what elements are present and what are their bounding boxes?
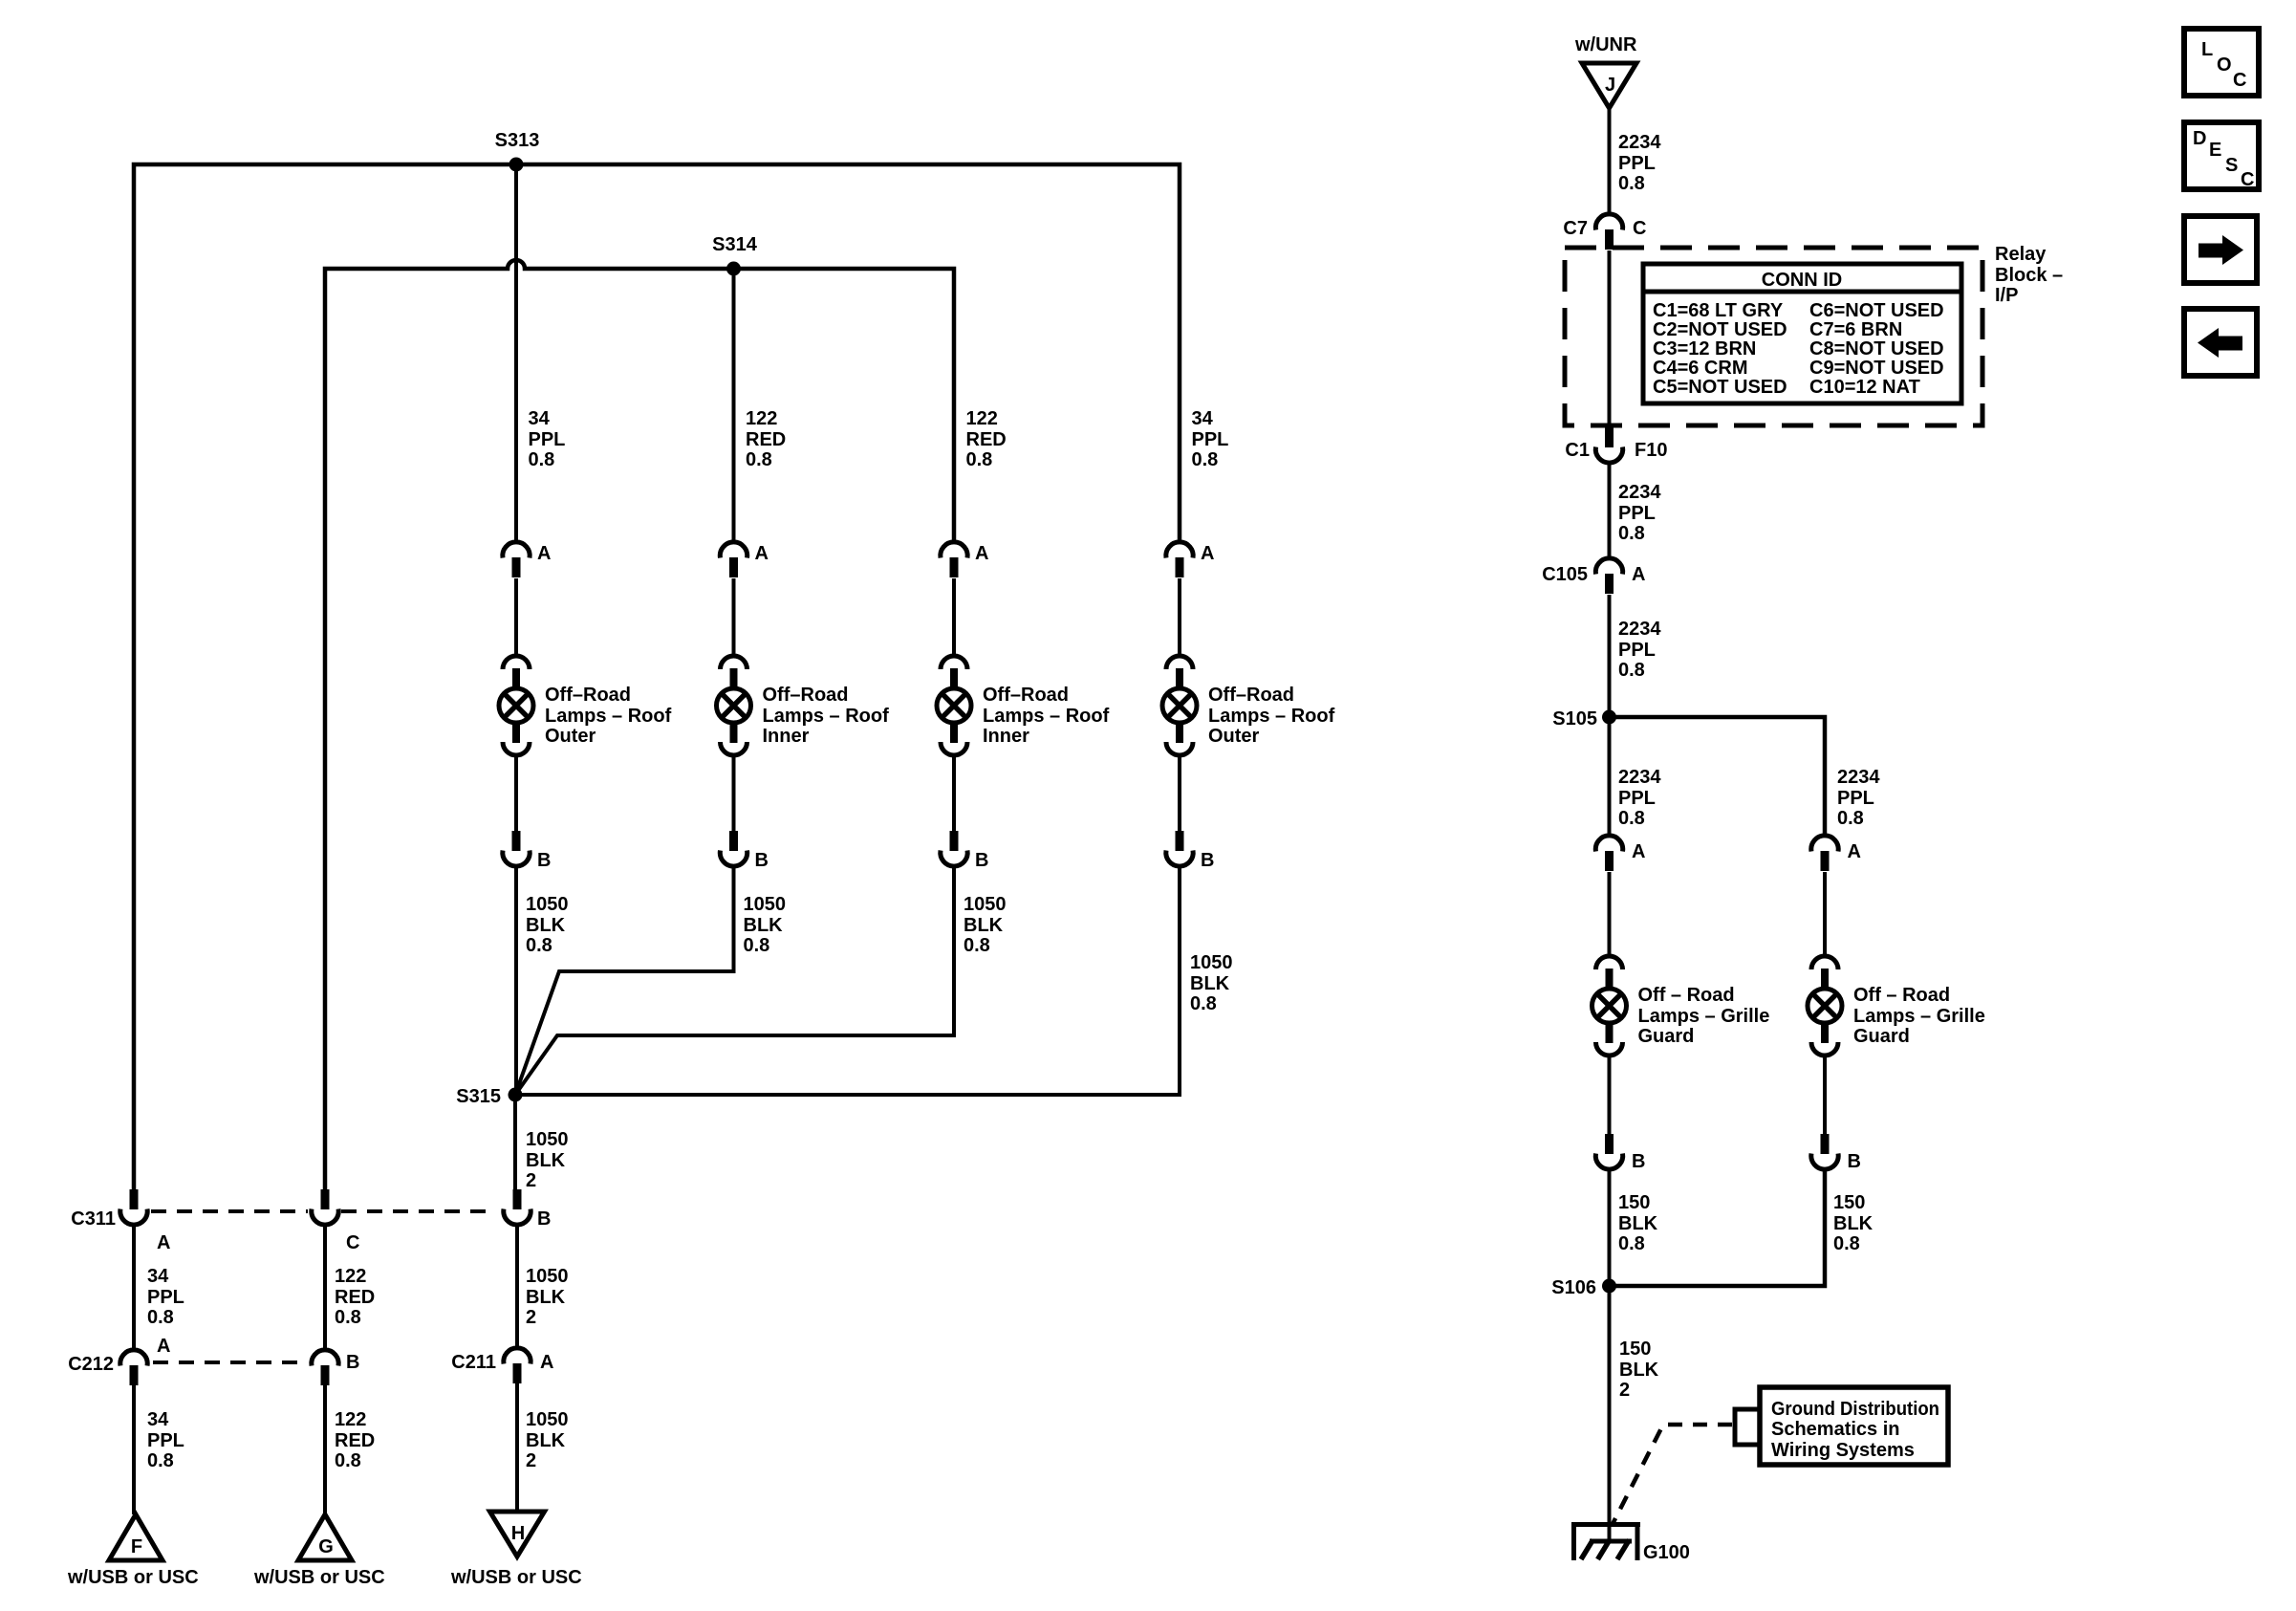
- off-page connector J: [1582, 63, 1636, 108]
- svg-text:C212: C212: [68, 1354, 114, 1375]
- svg-text:C: C: [2241, 169, 2254, 190]
- legend box DESC: [2184, 122, 2259, 190]
- dashed connector line C212: [153, 1361, 308, 1364]
- svg-text:C10=12 NAT: C10=12 NAT: [1809, 377, 1920, 398]
- svg-text:C1: C1: [1565, 440, 1590, 461]
- label wire label 150 BLK 2: [1619, 1339, 1659, 1401]
- svg-text:F: F: [131, 1536, 142, 1557]
- connector Off-Road Lamps - Roof Inner (left) terminal B: [720, 831, 747, 866]
- label wire label 122 RED 0.8 col x=998: [966, 408, 1007, 470]
- connector C311 terminal B: [504, 1189, 531, 1225]
- connector Off-Road Lamps - Roof Inner (left) terminal A: [720, 542, 747, 577]
- svg-text:Off – Road: Off – Road: [1638, 985, 1735, 1006]
- label wire label 34 PPL 0.8 col x=540: [529, 408, 566, 470]
- junction S105: [1602, 710, 1616, 725]
- label wire label 150 BLK 0.8 left: [1618, 1192, 1658, 1254]
- svg-text:RED: RED: [966, 429, 1007, 450]
- svg-text:Off – Road: Off – Road: [1853, 985, 1950, 1006]
- note box Ground Distribution: [1760, 1387, 1948, 1465]
- svg-text:C7: C7: [1563, 218, 1588, 239]
- legend box LOC: [2184, 29, 2259, 96]
- connector C1 terminal F10: [1595, 427, 1622, 463]
- label wire label 34 PPL 0.8 col x=1234: [1192, 408, 1229, 470]
- svg-text:122: 122: [966, 408, 998, 429]
- svg-text:1050: 1050: [1190, 952, 1233, 973]
- label wire label 2234 PPL 0.8 top: [1618, 132, 1661, 194]
- label wire label 122 RED 0.8 G low: [335, 1409, 375, 1471]
- wire 122 RED C311-C212: [323, 1224, 327, 1349]
- lamp Off-Road Lamps - Roof Inner (right): [937, 656, 971, 755]
- svg-text:B: B: [537, 850, 551, 871]
- off-page connector G: [298, 1514, 352, 1560]
- svg-text:0.8: 0.8: [1618, 808, 1645, 829]
- svg-text:Lamps – Grille: Lamps – Grille: [1853, 1006, 1985, 1027]
- label wire label 2234 PPL 0.8 mid1: [1618, 482, 1661, 544]
- svg-text:PPL: PPL: [1618, 503, 1656, 524]
- label wire label 2234 PPL 0.8 mid2: [1618, 619, 1661, 681]
- svg-text:S106: S106: [1551, 1277, 1596, 1298]
- svg-text:BLK: BLK: [1618, 1213, 1658, 1234]
- svg-text:A: A: [537, 543, 551, 564]
- wire S105 right branch: [1610, 717, 1826, 835]
- wire 1050 BLK col3 to S315: [515, 866, 954, 1095]
- svg-text:A: A: [975, 543, 988, 564]
- label wire label 2234 PPL 0.8 left branch: [1618, 767, 1661, 829]
- svg-text:1050: 1050: [526, 1266, 569, 1287]
- svg-text:B: B: [537, 1208, 551, 1230]
- svg-text:Lamps – Roof: Lamps – Roof: [983, 706, 1110, 727]
- wire bus S314 with hop and col G, col3 drops: [325, 260, 954, 1189]
- lamp Off - Road Lamps - Grille Guard (left): [1592, 956, 1627, 1056]
- svg-text:C3=12 BRN: C3=12 BRN: [1653, 338, 1756, 359]
- wire: [514, 755, 518, 832]
- wire: [1608, 1056, 1612, 1134]
- label component label Off-Road Lamps - Roof Inner (right): [983, 685, 1110, 747]
- svg-text:H: H: [511, 1523, 525, 1544]
- connector C211 terminal A: [504, 1348, 531, 1383]
- connector Off-Road Lamps - Roof Outer (right) terminal B: [1166, 831, 1193, 866]
- label wire label 122 RED 0.8 G mid: [335, 1266, 375, 1328]
- svg-text:BLK: BLK: [744, 915, 784, 936]
- svg-text:E: E: [2209, 140, 2221, 161]
- svg-text:B: B: [1848, 1151, 1861, 1172]
- connector C7 terminal C: [1595, 214, 1622, 250]
- svg-text:Inner: Inner: [983, 726, 1029, 747]
- dashed connector line C311: [151, 1209, 494, 1213]
- label component label Off-Road Lamps Grille Guard left: [1638, 985, 1770, 1047]
- svg-text:Outer: Outer: [1208, 726, 1260, 747]
- wire: [1178, 578, 1181, 656]
- svg-text:I/P: I/P: [1995, 285, 2018, 306]
- svg-text:Off–Road: Off–Road: [545, 685, 631, 706]
- svg-text:2234: 2234: [1618, 132, 1661, 153]
- svg-text:w/USB or USC: w/USB or USC: [67, 1567, 199, 1588]
- svg-text:122: 122: [335, 1409, 366, 1430]
- svg-text:BLK: BLK: [1619, 1360, 1659, 1381]
- dashed leader to ground: [1612, 1425, 1732, 1526]
- legend box arrow right: [2184, 216, 2257, 283]
- CONN ID table frame: [1643, 264, 1961, 403]
- svg-text:O: O: [2217, 54, 2232, 76]
- connector C311 terminal C: [312, 1189, 338, 1225]
- wire 1050 BLK 2 to C311: [513, 1095, 517, 1189]
- connector C212 terminal B: [312, 1350, 338, 1385]
- wire 150 BLK 2 to G100: [1608, 1286, 1612, 1527]
- svg-text:A: A: [1848, 841, 1861, 862]
- svg-text:w/USB or USC: w/USB or USC: [450, 1567, 582, 1588]
- wire: [732, 755, 736, 832]
- svg-text:PPL: PPL: [1192, 429, 1229, 450]
- junction S106: [1602, 1279, 1616, 1294]
- svg-text:B: B: [346, 1352, 359, 1373]
- svg-text:0.8: 0.8: [964, 935, 990, 956]
- svg-text:C2=NOT USED: C2=NOT USED: [1653, 319, 1787, 340]
- wire 34 PPL col1: [514, 164, 518, 542]
- bracket for note box: [1735, 1409, 1760, 1445]
- svg-text:1050: 1050: [964, 894, 1007, 915]
- wire 1050 BLK to H: [515, 1383, 519, 1512]
- connector Off-Road Lamps - Roof Outer (right) terminal A: [1166, 542, 1193, 577]
- svg-text:150: 150: [1833, 1192, 1865, 1213]
- svg-text:G100: G100: [1643, 1542, 1690, 1563]
- wire: [952, 755, 956, 832]
- svg-text:122: 122: [746, 408, 777, 429]
- svg-text:C7=6 BRN: C7=6 BRN: [1809, 319, 1902, 340]
- svg-text:Off–Road: Off–Road: [983, 685, 1069, 706]
- svg-text:0.8: 0.8: [1618, 173, 1645, 194]
- svg-text:0.8: 0.8: [1618, 523, 1645, 544]
- svg-text:122: 122: [335, 1266, 366, 1287]
- label component label Off-Road Lamps - Roof Outer (right): [1208, 685, 1335, 747]
- label wire label 1050 BLK 0.8 col4: [1190, 952, 1233, 1014]
- svg-text:BLK: BLK: [964, 915, 1004, 936]
- svg-text:34: 34: [147, 1266, 169, 1287]
- svg-text:Relay: Relay: [1995, 244, 2047, 265]
- svg-text:BLK: BLK: [526, 1287, 566, 1308]
- svg-text:A: A: [755, 543, 769, 564]
- label wire label 1050 BLK 0.8 col2: [744, 894, 787, 956]
- wire 122 RED col2: [732, 269, 736, 542]
- svg-text:C6=NOT USED: C6=NOT USED: [1809, 300, 1944, 321]
- svg-text:L: L: [2201, 39, 2213, 60]
- label wire label 1050 BLK 0.8 col3: [964, 894, 1007, 956]
- svg-text:0.8: 0.8: [1192, 449, 1219, 470]
- wire 2234 PPL from J: [1608, 106, 1612, 213]
- svg-text:0.8: 0.8: [1190, 993, 1217, 1014]
- svg-text:A: A: [157, 1232, 170, 1253]
- svg-text:BLK: BLK: [526, 915, 566, 936]
- wire 2234 PPL C105-S105: [1608, 595, 1612, 717]
- wire: [1178, 755, 1181, 832]
- svg-text:Lamps – Roof: Lamps – Roof: [1208, 706, 1335, 727]
- svg-text:0.8: 0.8: [1837, 808, 1864, 829]
- svg-text:34: 34: [1192, 408, 1214, 429]
- svg-text:BLK: BLK: [1833, 1213, 1874, 1234]
- svg-text:0.8: 0.8: [746, 449, 772, 470]
- wire 1050 BLK col1 to S315: [514, 866, 518, 1095]
- svg-text:150: 150: [1619, 1339, 1651, 1360]
- CONN ID table right column: [1809, 300, 1944, 398]
- lamp Off-Road Lamps - Roof Outer (left): [499, 656, 533, 755]
- label wire label 1050 BLK 2 below S315: [526, 1129, 569, 1191]
- svg-text:0.8: 0.8: [1833, 1233, 1860, 1254]
- svg-text:PPL: PPL: [1618, 640, 1656, 661]
- svg-text:Wiring Systems: Wiring Systems: [1771, 1440, 1915, 1461]
- svg-text:RED: RED: [335, 1430, 375, 1451]
- off-page connector F: [109, 1514, 162, 1560]
- svg-text:2: 2: [526, 1170, 536, 1191]
- connector Off-Road Lamps - Roof Inner (right) terminal A: [941, 542, 967, 577]
- wire S105 left branch: [1608, 717, 1612, 835]
- wire through relay block: [1608, 250, 1612, 427]
- wire bus S313 with col F and col4 drops: [134, 164, 1180, 1189]
- svg-text:A: A: [1632, 841, 1645, 862]
- svg-text:CONN ID: CONN ID: [1762, 270, 1842, 291]
- svg-text:Guard: Guard: [1638, 1026, 1695, 1047]
- connector Off-Road Lamps Grille Guard left terminal B: [1595, 1134, 1622, 1169]
- svg-text:PPL: PPL: [529, 429, 566, 450]
- svg-text:34: 34: [147, 1409, 169, 1430]
- svg-text:A: A: [1632, 564, 1645, 585]
- svg-text:0.8: 0.8: [335, 1307, 361, 1328]
- connector Off-Road Lamps Grille Guard right terminal A: [1811, 836, 1838, 871]
- svg-text:D: D: [2193, 128, 2206, 149]
- junction S313: [509, 158, 524, 172]
- svg-text:B: B: [1201, 850, 1214, 871]
- wire 34 PPL C311-C212: [132, 1224, 136, 1349]
- svg-text:PPL: PPL: [1618, 788, 1656, 809]
- label component label Off-Road Lamps - Roof Inner (left): [763, 685, 890, 747]
- svg-text:0.8: 0.8: [335, 1450, 361, 1471]
- svg-text:C105: C105: [1542, 564, 1588, 585]
- junction S315: [509, 1088, 523, 1102]
- svg-text:1050: 1050: [526, 1409, 569, 1430]
- wire 150 BLK left to S106: [1608, 1168, 1612, 1286]
- svg-text:Ground Distribution: Ground Distribution: [1771, 1399, 1939, 1420]
- svg-text:2234: 2234: [1837, 767, 1880, 788]
- svg-text:0.8: 0.8: [529, 449, 555, 470]
- svg-text:Guard: Guard: [1853, 1026, 1910, 1047]
- svg-text:w/USB or USC: w/USB or USC: [253, 1567, 385, 1588]
- label component label Off-Road Lamps Grille Guard right: [1853, 985, 1985, 1047]
- svg-text:Block –: Block –: [1995, 265, 2063, 286]
- connector C212 terminal A: [120, 1350, 147, 1385]
- svg-text:C9=NOT USED: C9=NOT USED: [1809, 358, 1944, 379]
- svg-text:BLK: BLK: [1190, 973, 1230, 994]
- wire 1050 BLK C311-C211: [515, 1224, 519, 1347]
- svg-text:0.8: 0.8: [147, 1307, 174, 1328]
- svg-text:PPL: PPL: [1837, 788, 1874, 809]
- wire: [1823, 872, 1827, 957]
- label wire label 2234 PPL 0.8 right branch: [1837, 767, 1880, 829]
- CONN ID table left column: [1653, 300, 1787, 398]
- wire: [1823, 1056, 1827, 1134]
- label wire label 34 PPL 0.8 F low: [147, 1409, 184, 1471]
- lamp Off-Road Lamps - Roof Inner (left): [717, 656, 751, 755]
- svg-text:S105: S105: [1552, 708, 1597, 729]
- svg-text:J: J: [1605, 75, 1615, 96]
- wire: [1608, 872, 1612, 957]
- svg-text:Inner: Inner: [763, 726, 810, 747]
- wire 2234 PPL C1-C105: [1608, 462, 1612, 557]
- svg-text:S313: S313: [495, 130, 540, 151]
- svg-text:A: A: [1201, 543, 1214, 564]
- svg-text:2: 2: [526, 1450, 536, 1471]
- wire 34 PPL to F: [132, 1385, 136, 1514]
- svg-text:S315: S315: [456, 1086, 501, 1107]
- label wire label 122 RED 0.8 col x=767.5: [746, 408, 786, 470]
- label component label Relay Block - I/P: [1995, 244, 2063, 306]
- connector Off-Road Lamps - Roof Outer (left) terminal B: [503, 831, 530, 866]
- svg-text:C: C: [346, 1232, 359, 1253]
- svg-text:A: A: [540, 1352, 553, 1373]
- svg-text:0.8: 0.8: [744, 935, 770, 956]
- connector Off-Road Lamps Grille Guard right terminal B: [1811, 1134, 1838, 1169]
- svg-text:2: 2: [1619, 1380, 1630, 1401]
- wire: [952, 578, 956, 656]
- svg-text:C: C: [1633, 218, 1646, 239]
- svg-text:2: 2: [526, 1307, 536, 1328]
- svg-text:C1=68 LT GRY: C1=68 LT GRY: [1653, 300, 1784, 321]
- svg-text:Schematics in: Schematics in: [1771, 1419, 1900, 1440]
- svg-text:F10: F10: [1635, 440, 1667, 461]
- svg-text:2234: 2234: [1618, 619, 1661, 640]
- svg-text:S: S: [2225, 155, 2238, 176]
- svg-text:Off–Road: Off–Road: [1208, 685, 1294, 706]
- svg-text:C5=NOT USED: C5=NOT USED: [1653, 377, 1787, 398]
- svg-text:Off–Road: Off–Road: [763, 685, 849, 706]
- svg-text:0.8: 0.8: [966, 449, 993, 470]
- svg-text:C8=NOT USED: C8=NOT USED: [1809, 338, 1944, 359]
- svg-text:PPL: PPL: [147, 1430, 184, 1451]
- connector Off-Road Lamps - Roof Outer (left) terminal A: [503, 542, 530, 577]
- svg-text:0.8: 0.8: [1618, 660, 1645, 681]
- label component label Off-Road Lamps - Roof Outer (left): [545, 685, 672, 747]
- svg-text:0.8: 0.8: [526, 935, 552, 956]
- svg-text:2234: 2234: [1618, 767, 1661, 788]
- svg-text:RED: RED: [335, 1287, 375, 1308]
- label wire label 1050 BLK 2 H mid: [526, 1266, 569, 1328]
- svg-text:0.8: 0.8: [147, 1450, 174, 1471]
- svg-text:1050: 1050: [526, 1129, 569, 1150]
- svg-text:1050: 1050: [744, 894, 787, 915]
- svg-text:C4=6 CRM: C4=6 CRM: [1653, 358, 1747, 379]
- off-page connector H: [490, 1512, 545, 1557]
- connector Off-Road Lamps Grille Guard left terminal A: [1595, 836, 1622, 871]
- svg-text:Lamps – Grille: Lamps – Grille: [1638, 1006, 1770, 1027]
- svg-text:B: B: [755, 850, 769, 871]
- wire 1050 BLK col4 to S315: [515, 866, 1180, 1095]
- svg-text:2234: 2234: [1618, 482, 1661, 503]
- wire 122 RED to G: [323, 1385, 327, 1514]
- label wire label 150 BLK 0.8 right: [1833, 1192, 1874, 1254]
- connector C105 terminal A: [1595, 558, 1622, 594]
- relay block dashed outline: [1565, 248, 1982, 425]
- svg-text:PPL: PPL: [147, 1287, 184, 1308]
- svg-text:C311: C311: [71, 1208, 116, 1230]
- svg-text:C: C: [2233, 70, 2246, 91]
- label wire label 1050 BLK 0.8 col1: [526, 894, 569, 956]
- wire: [514, 578, 518, 656]
- junction S314: [726, 262, 741, 276]
- label wire label 1050 BLK 2 H low: [526, 1409, 569, 1471]
- svg-text:S314: S314: [712, 234, 758, 255]
- svg-text:B: B: [1632, 1151, 1645, 1172]
- lamp Off - Road Lamps - Grille Guard (right): [1808, 956, 1842, 1056]
- svg-text:Outer: Outer: [545, 726, 596, 747]
- svg-text:G: G: [318, 1536, 334, 1557]
- svg-text:BLK: BLK: [526, 1150, 566, 1171]
- svg-text:34: 34: [529, 408, 551, 429]
- svg-text:150: 150: [1618, 1192, 1650, 1213]
- svg-text:A: A: [157, 1336, 170, 1357]
- connector Off-Road Lamps - Roof Inner (right) terminal B: [941, 831, 967, 866]
- ground G100: [1571, 1522, 1640, 1560]
- svg-text:0.8: 0.8: [1618, 1233, 1645, 1254]
- lamp Off-Road Lamps - Roof Outer (right): [1162, 656, 1197, 755]
- label wire label 34 PPL 0.8 F mid: [147, 1266, 184, 1328]
- svg-text:BLK: BLK: [526, 1430, 566, 1451]
- svg-text:B: B: [975, 850, 988, 871]
- wire 150 BLK right to S106: [1610, 1168, 1826, 1286]
- svg-text:RED: RED: [746, 429, 786, 450]
- wire 1050 BLK col2 to S315: [515, 866, 734, 1095]
- connector C311 terminal A: [120, 1189, 147, 1225]
- svg-text:C211: C211: [451, 1352, 496, 1373]
- svg-text:PPL: PPL: [1618, 153, 1656, 174]
- svg-text:w/UNR: w/UNR: [1574, 34, 1637, 55]
- svg-text:Lamps – Roof: Lamps – Roof: [545, 706, 672, 727]
- svg-text:1050: 1050: [526, 894, 569, 915]
- legend box arrow left: [2184, 309, 2257, 376]
- wire: [732, 578, 736, 656]
- svg-text:Lamps – Roof: Lamps – Roof: [763, 706, 890, 727]
